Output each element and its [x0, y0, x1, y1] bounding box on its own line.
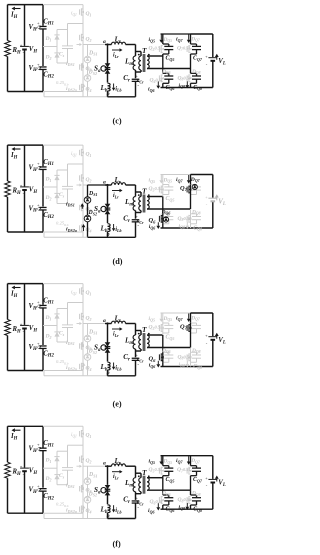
svg-text:iQ5: iQ5 [149, 459, 155, 465]
svg-text:iQ5: iQ5 [149, 316, 155, 322]
svg-text:(c): (c) [113, 116, 122, 125]
svg-text:CQ8: CQ8 [193, 364, 202, 370]
svg-text:CQ5: CQ5 [166, 196, 175, 202]
svg-text:iQ6: iQ6 [148, 508, 154, 514]
svg-text:iDS2a: iDS2a [66, 508, 77, 514]
svg-text:(e): (e) [113, 399, 122, 408]
svg-text:+: + [37, 300, 40, 305]
svg-text:iDS2a: iDS2a [66, 86, 77, 92]
svg-text:iLr: iLr [113, 53, 119, 59]
svg-text:iDS1: iDS1 [66, 483, 75, 489]
svg-text:+: + [37, 341, 40, 346]
svg-text:iLb: iLb [115, 227, 121, 233]
svg-text:CQ8: CQ8 [193, 507, 202, 513]
svg-text:iDS1: iDS1 [66, 340, 75, 346]
svg-text:+: + [20, 322, 23, 327]
svg-text:+: + [37, 202, 40, 207]
svg-text:+: + [20, 43, 23, 48]
svg-text:T: T [142, 325, 147, 334]
svg-text:+: + [37, 62, 40, 67]
svg-text:a: a [103, 461, 106, 467]
svg-text:iLr: iLr [113, 332, 119, 338]
svg-text:DS1: DS1 [88, 191, 98, 197]
svg-text:+: + [20, 183, 23, 188]
svg-text:CQ7: CQ7 [193, 477, 203, 483]
svg-text:iQ8: iQ8 [179, 505, 185, 511]
svg-text:CQ8: CQ8 [193, 85, 202, 91]
svg-text:iQ5: iQ5 [149, 37, 155, 43]
svg-text:+: + [37, 21, 40, 26]
svg-text:iQ5: iQ5 [149, 178, 155, 184]
svg-text:iQ7: iQ7 [176, 37, 183, 43]
svg-text:CQ6: CQ6 [166, 85, 176, 91]
svg-text:DS1: DS1 [88, 329, 98, 335]
svg-text:iLb: iLb [115, 508, 121, 514]
svg-text:CQ5: CQ5 [166, 477, 175, 483]
svg-text:iQ8: iQ8 [179, 83, 185, 89]
svg-text:T: T [142, 468, 147, 477]
svg-text:CQ7: CQ7 [193, 56, 203, 62]
svg-text:iQ7: iQ7 [176, 316, 183, 322]
svg-text:iQ8: iQ8 [179, 362, 185, 368]
svg-text:iDS1: iDS1 [66, 61, 75, 67]
svg-text:DS1: DS1 [88, 472, 98, 478]
svg-text:CQ5: CQ5 [166, 56, 175, 62]
svg-text:a: a [103, 318, 106, 324]
svg-text:iLb: iLb [115, 86, 121, 92]
svg-text:+: + [37, 161, 40, 166]
svg-text:iLr: iLr [113, 193, 119, 199]
svg-text:iQ7: iQ7 [176, 458, 183, 464]
svg-text:CQ8: CQ8 [193, 225, 202, 231]
svg-text:+: + [37, 442, 40, 447]
svg-text:CQ5: CQ5 [166, 335, 175, 341]
svg-text:CQ6: CQ6 [166, 507, 176, 513]
svg-text:(d): (d) [113, 257, 123, 266]
svg-text:a: a [103, 39, 106, 45]
svg-text:iQ7: iQ7 [176, 177, 183, 183]
svg-text:iLr: iLr [113, 474, 119, 480]
svg-text:DS1: DS1 [88, 50, 98, 56]
svg-text:iDS1: iDS1 [66, 201, 75, 207]
svg-text:iQ6: iQ6 [149, 224, 155, 230]
svg-text:iQ6: iQ6 [148, 87, 154, 93]
svg-text:iDS2a: iDS2a [66, 227, 77, 233]
svg-text:iDS2a: iDS2a [66, 365, 77, 371]
svg-text:iQ6: iQ6 [149, 363, 155, 369]
svg-text:a: a [103, 180, 106, 186]
svg-text:iQ8: iQ8 [179, 223, 185, 229]
svg-text:iLb: iLb [115, 365, 121, 371]
svg-text:T: T [142, 187, 147, 196]
svg-text:+: + [20, 464, 23, 469]
svg-text:T: T [142, 46, 147, 55]
svg-text:(f): (f) [113, 539, 121, 548]
svg-text:+: + [37, 484, 40, 489]
